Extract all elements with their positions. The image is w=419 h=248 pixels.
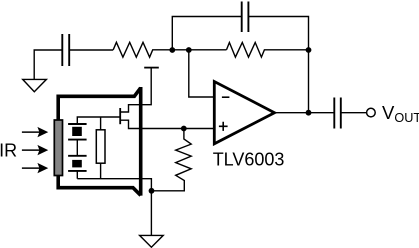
svg-text:IR: IR bbox=[0, 141, 17, 161]
svg-text:V: V bbox=[382, 102, 395, 123]
svg-text:TLV6003: TLV6003 bbox=[213, 150, 285, 170]
svg-text:OUT: OUT bbox=[394, 111, 419, 125]
